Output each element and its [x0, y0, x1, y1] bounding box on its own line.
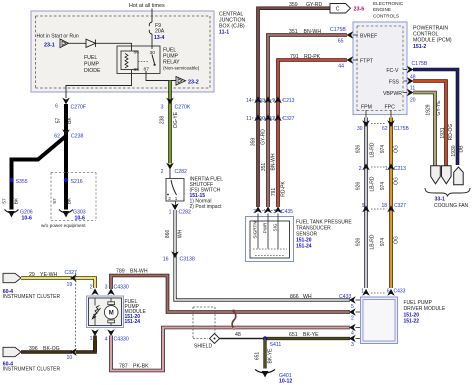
svg-text:C: C: [336, 6, 340, 12]
svg-text:2: 2: [161, 169, 164, 175]
svg-text:6: 6: [55, 104, 58, 110]
svg-text:COOLING FAN: COOLING FAN: [434, 203, 469, 209]
svg-text:18: 18: [381, 203, 387, 209]
svg-text:238: 238: [160, 116, 166, 125]
svg-text:C282: C282: [175, 169, 188, 175]
svg-text:BK: BK: [67, 117, 73, 124]
svg-text:2: 2: [168, 196, 171, 201]
svg-text:C175B: C175B: [412, 61, 428, 67]
svg-text:C213: C213: [394, 166, 406, 172]
svg-text:FPC: FPC: [385, 105, 396, 111]
svg-text:33-1: 33-1: [435, 197, 445, 203]
svg-text:C4330: C4330: [114, 285, 129, 291]
svg-text:10: 10: [67, 355, 73, 361]
svg-text:20: 20: [410, 98, 416, 104]
svg-text:M: M: [109, 311, 114, 317]
svg-text:PK-BK: PK-BK: [133, 364, 149, 370]
svg-text:C175B: C175B: [330, 27, 346, 33]
svg-text:BK: BK: [14, 197, 20, 204]
svg-text:974: 974: [380, 238, 386, 247]
svg-text:48: 48: [235, 332, 241, 338]
svg-text:DRIVER MODULE: DRIVER MODULE: [404, 306, 446, 312]
svg-text:C327: C327: [283, 116, 295, 122]
svg-text:BN-WH: BN-WH: [130, 269, 148, 275]
svg-text:11-1: 11-1: [219, 30, 229, 36]
svg-text:3: 3: [161, 105, 164, 111]
svg-text:926: 926: [356, 182, 362, 191]
svg-text:Hot in Start or Run: Hot in Start or Run: [37, 34, 79, 40]
svg-text:151-2: 151-2: [413, 44, 426, 50]
svg-text:INSTRUMENT CLUSTER: INSTRUMENT CLUSTER: [3, 367, 61, 373]
svg-text:2: 2: [359, 166, 362, 172]
svg-text:6: 6: [387, 289, 390, 295]
svg-text:11: 11: [246, 116, 251, 122]
svg-text:62: 62: [54, 134, 60, 140]
svg-text:C238: C238: [71, 134, 84, 140]
svg-text:C4330: C4330: [114, 337, 129, 343]
svg-text:1: 1: [263, 209, 266, 215]
svg-text:LB-RD: LB-RD: [370, 176, 376, 191]
svg-text:BK: BK: [67, 197, 73, 204]
svg-text:C213: C213: [283, 98, 295, 104]
svg-text:151-24: 151-24: [125, 319, 141, 325]
svg-text:866: 866: [290, 294, 299, 300]
svg-text:BK-YE: BK-YE: [303, 332, 319, 338]
svg-text:(Non-serviceable): (Non-serviceable): [163, 66, 200, 71]
svg-text:C433: C433: [339, 294, 352, 300]
svg-text:1931: 1931: [440, 127, 446, 138]
svg-text:57: 57: [56, 118, 62, 124]
svg-text:LB-RD: LB-RD: [370, 142, 376, 157]
svg-text:ENGINE: ENGINE: [373, 7, 391, 12]
svg-text:787: 787: [119, 364, 128, 370]
svg-text:C327: C327: [394, 203, 406, 209]
svg-text:C270K: C270K: [175, 105, 191, 111]
svg-text:RD-OG: RD-OG: [448, 124, 454, 141]
svg-text:VBPWR: VBPWR: [383, 91, 402, 97]
svg-text:789: 789: [116, 269, 125, 275]
svg-text:13-4: 13-4: [154, 35, 164, 41]
svg-text:974: 974: [380, 182, 386, 191]
svg-text:13: 13: [259, 98, 265, 104]
svg-text:3: 3: [105, 285, 108, 291]
svg-text:10-6: 10-6: [22, 216, 32, 222]
svg-text:9: 9: [272, 98, 275, 104]
svg-text:19: 19: [67, 282, 73, 288]
svg-text:1: 1: [169, 210, 172, 216]
svg-text:359: 359: [251, 138, 257, 147]
svg-text:1: 1: [361, 289, 364, 295]
svg-text:151-22: 151-22: [404, 319, 420, 325]
svg-text:Hot at all times: Hot at all times: [129, 3, 165, 9]
svg-text:2: 2: [253, 209, 256, 215]
svg-text:5: 5: [351, 304, 354, 310]
svg-text:w/o power equipment: w/o power equipment: [41, 223, 86, 228]
svg-text:INSTRUMENT CLUSTER: INSTRUMENT CLUSTER: [3, 294, 61, 300]
svg-text:974: 974: [380, 145, 386, 154]
svg-text:23-2: 23-2: [188, 79, 199, 85]
svg-text:PUMP: PUMP: [84, 62, 100, 68]
svg-text:791: 791: [271, 188, 277, 197]
svg-text:FUEL: FUEL: [84, 55, 97, 61]
svg-text:16: 16: [163, 257, 169, 263]
svg-text:S216: S216: [71, 179, 83, 185]
svg-text:48: 48: [410, 75, 416, 81]
svg-text:10: 10: [259, 116, 265, 122]
svg-text:RD-PK: RD-PK: [281, 181, 287, 197]
svg-text:10-12: 10-12: [279, 379, 292, 385]
svg-text:DB: DB: [459, 145, 465, 153]
svg-text:2: 2: [90, 285, 93, 291]
svg-text:LB-RD: LB-RD: [370, 234, 376, 249]
svg-text:OG: OG: [394, 177, 400, 185]
svg-text:C3138: C3138: [180, 257, 195, 263]
svg-text:BN-WH: BN-WH: [271, 153, 277, 170]
svg-text:12: 12: [269, 116, 275, 122]
svg-text:926: 926: [356, 145, 362, 154]
svg-text:1: 1: [175, 196, 178, 201]
svg-text:57: 57: [52, 198, 58, 204]
svg-text:1: 1: [385, 166, 388, 172]
svg-text:DIODE: DIODE: [84, 68, 101, 74]
svg-text:1930: 1930: [451, 145, 457, 156]
svg-text:30: 30: [357, 126, 363, 132]
svg-text:C435: C435: [281, 209, 293, 215]
svg-text:11: 11: [410, 86, 415, 92]
svg-text:OG: OG: [394, 236, 400, 244]
svg-text:926: 926: [356, 238, 362, 247]
svg-text:S411: S411: [270, 342, 282, 348]
svg-text:C270F: C270F: [71, 105, 87, 111]
svg-text:OG-YE: OG-YE: [173, 111, 179, 128]
svg-text:OG: OG: [394, 145, 400, 153]
svg-text:SHIELD: SHIELD: [194, 344, 212, 350]
svg-text:65: 65: [338, 39, 344, 45]
svg-text:151-24: 151-24: [296, 244, 312, 250]
svg-text:23-1: 23-1: [44, 43, 55, 49]
svg-text:9: 9: [362, 203, 365, 209]
svg-text:MODULE (PCM): MODULE (PCM): [413, 38, 452, 44]
svg-text:GY-YE: GY-YE: [436, 100, 442, 116]
svg-text:PWR: PWR: [263, 222, 268, 233]
svg-text:3: 3: [273, 209, 276, 215]
svg-text:FTPT: FTPT: [360, 58, 374, 64]
svg-text:3: 3: [351, 342, 354, 348]
svg-text:351: 351: [261, 163, 267, 172]
svg-text:57: 57: [2, 198, 8, 204]
svg-text:WH: WH: [303, 294, 312, 300]
svg-text:S355: S355: [16, 179, 28, 185]
svg-text:1929: 1929: [426, 104, 432, 115]
svg-text:23-6: 23-6: [354, 7, 365, 13]
svg-text:FC-V: FC-V: [386, 68, 399, 74]
svg-text:866: 866: [165, 230, 171, 239]
svg-text:651: 651: [255, 352, 261, 361]
svg-text:85: 85: [134, 67, 140, 73]
svg-text:FSS: FSS: [389, 79, 400, 85]
svg-text:SIG: SIG: [273, 223, 278, 231]
svg-text:FPM: FPM: [361, 105, 372, 111]
svg-text:C175B: C175B: [394, 126, 410, 132]
svg-text:SIGRTN: SIGRTN: [253, 221, 258, 238]
svg-text:2) Post impact: 2) Post impact: [190, 204, 223, 210]
svg-text:2: 2: [351, 316, 354, 322]
svg-text:GY-RD: GY-RD: [261, 129, 267, 145]
svg-text:4: 4: [105, 337, 108, 343]
svg-text:WH: WH: [178, 229, 184, 238]
svg-text:4: 4: [351, 331, 354, 337]
svg-text:C433: C433: [394, 289, 406, 295]
svg-text:ELECTRONIC: ELECTRONIC: [373, 1, 404, 6]
svg-text:BVREF: BVREF: [360, 33, 377, 39]
svg-text:651: 651: [289, 332, 298, 338]
svg-text:CONTROLS: CONTROLS: [373, 13, 399, 18]
svg-text:44: 44: [338, 64, 344, 70]
svg-text:C282: C282: [179, 210, 192, 216]
svg-text:14: 14: [246, 98, 252, 104]
svg-text:62: 62: [382, 126, 388, 132]
svg-text:1: 1: [90, 336, 93, 342]
svg-text:20A: 20A: [155, 29, 165, 35]
svg-text:BK-YE: BK-YE: [268, 348, 274, 364]
svg-text:86: 86: [134, 50, 140, 56]
